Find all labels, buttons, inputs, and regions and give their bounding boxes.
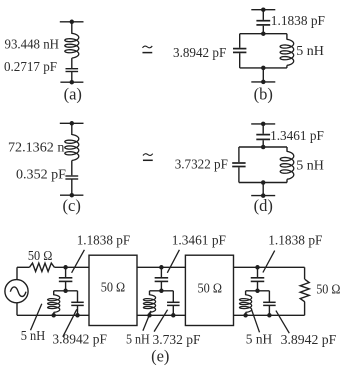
svg-text:5 nH: 5 nH [246, 332, 272, 347]
svg-text:50 Ω: 50 Ω [198, 281, 223, 296]
svg-text:50 Ω: 50 Ω [28, 249, 53, 264]
svg-text:1.3461 pF: 1.3461 pF [172, 234, 226, 249]
svg-text:1.1838 pF: 1.1838 pF [271, 14, 325, 29]
svg-text:1.3461 pF: 1.3461 pF [270, 129, 324, 144]
svg-text:5 nH: 5 nH [21, 329, 46, 344]
svg-text:5 nH: 5 nH [296, 44, 324, 59]
svg-text:(e): (e) [151, 346, 169, 365]
svg-text:5 nH: 5 nH [296, 159, 324, 174]
svg-text:50 Ω: 50 Ω [316, 282, 340, 297]
svg-text:93.448 nH: 93.448 nH [5, 38, 60, 53]
svg-text:0.352 pF: 0.352 pF [16, 168, 66, 183]
svg-text:(a): (a) [64, 85, 82, 104]
svg-text:5 nH: 5 nH [126, 333, 150, 348]
svg-text:3.8942 pF: 3.8942 pF [281, 333, 337, 348]
svg-text:3.7322 pF: 3.7322 pF [175, 158, 228, 173]
svg-text:1.1838 pF: 1.1838 pF [268, 234, 322, 249]
svg-text:(b): (b) [254, 85, 273, 104]
svg-text:50 Ω: 50 Ω [101, 280, 126, 295]
svg-text:(c): (c) [63, 196, 81, 215]
svg-text:72.1362 n: 72.1362 n [8, 140, 64, 155]
svg-text:3.8942 pF: 3.8942 pF [52, 333, 107, 348]
svg-text:(d): (d) [254, 196, 273, 215]
svg-text:1.1838 pF: 1.1838 pF [77, 234, 131, 249]
svg-text:3.8942 pF: 3.8942 pF [173, 46, 226, 61]
svg-text:0.2717 pF: 0.2717 pF [4, 60, 57, 75]
